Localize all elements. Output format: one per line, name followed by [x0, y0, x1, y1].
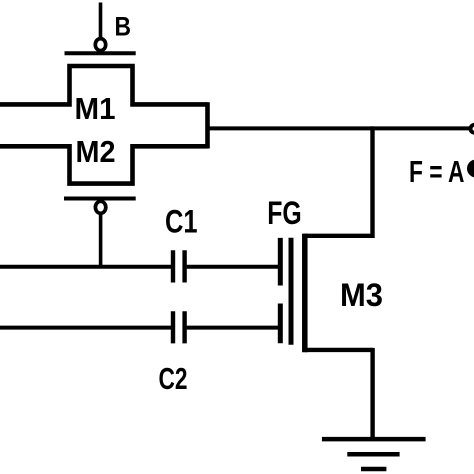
- transistor M1 channel: [0, 66, 208, 104]
- svg-text:B: B: [115, 12, 132, 42]
- wire output junction to drain: [370, 126, 374, 238]
- transistor M1 gate bubble (PMOS): [95, 39, 105, 51]
- wire M2 gate to input line: [99, 215, 103, 267]
- svg-text:M1: M1: [75, 91, 116, 126]
- svg-text:M3: M3: [340, 277, 383, 313]
- svg-text:F = A: F = A: [409, 154, 465, 189]
- output terminal: [471, 125, 474, 133]
- svg-text:FG: FG: [267, 195, 302, 231]
- capacitor C2: [173, 311, 185, 343]
- wire input 1 (left segment): [0, 265, 171, 269]
- transistor M2 channel: [0, 146, 208, 183]
- wire shared drain bracket: [205, 102, 210, 148]
- transistor M3 channel bar: [302, 234, 308, 353]
- svg-text:C1: C1: [165, 204, 198, 240]
- svg-text:M2: M2: [76, 134, 116, 169]
- wire source to ground: [370, 348, 374, 439]
- wire M3 drain: [305, 234, 373, 238]
- wire C1 to floating gate: [187, 265, 278, 269]
- wire M3 source: [305, 348, 373, 352]
- transistor M2 gate bar: [64, 197, 136, 201]
- wire output F: [208, 126, 470, 130]
- svg-text:C2: C2: [159, 361, 188, 396]
- capacitor C1: [173, 250, 185, 282]
- ground: [322, 439, 426, 469]
- transistor M3 control gate bars: [278, 238, 283, 343]
- xor symbol (clipped at edge): [467, 160, 474, 178]
- wire input 2 (left segment): [0, 326, 171, 330]
- transistor M2 gate bubble (PMOS): [95, 201, 105, 213]
- node FG floating gate bar: [289, 238, 294, 345]
- transistor M1 gate bar: [65, 51, 136, 55]
- wire B gate input: [99, 3, 103, 38]
- wire C2 to floating gate: [187, 326, 278, 330]
